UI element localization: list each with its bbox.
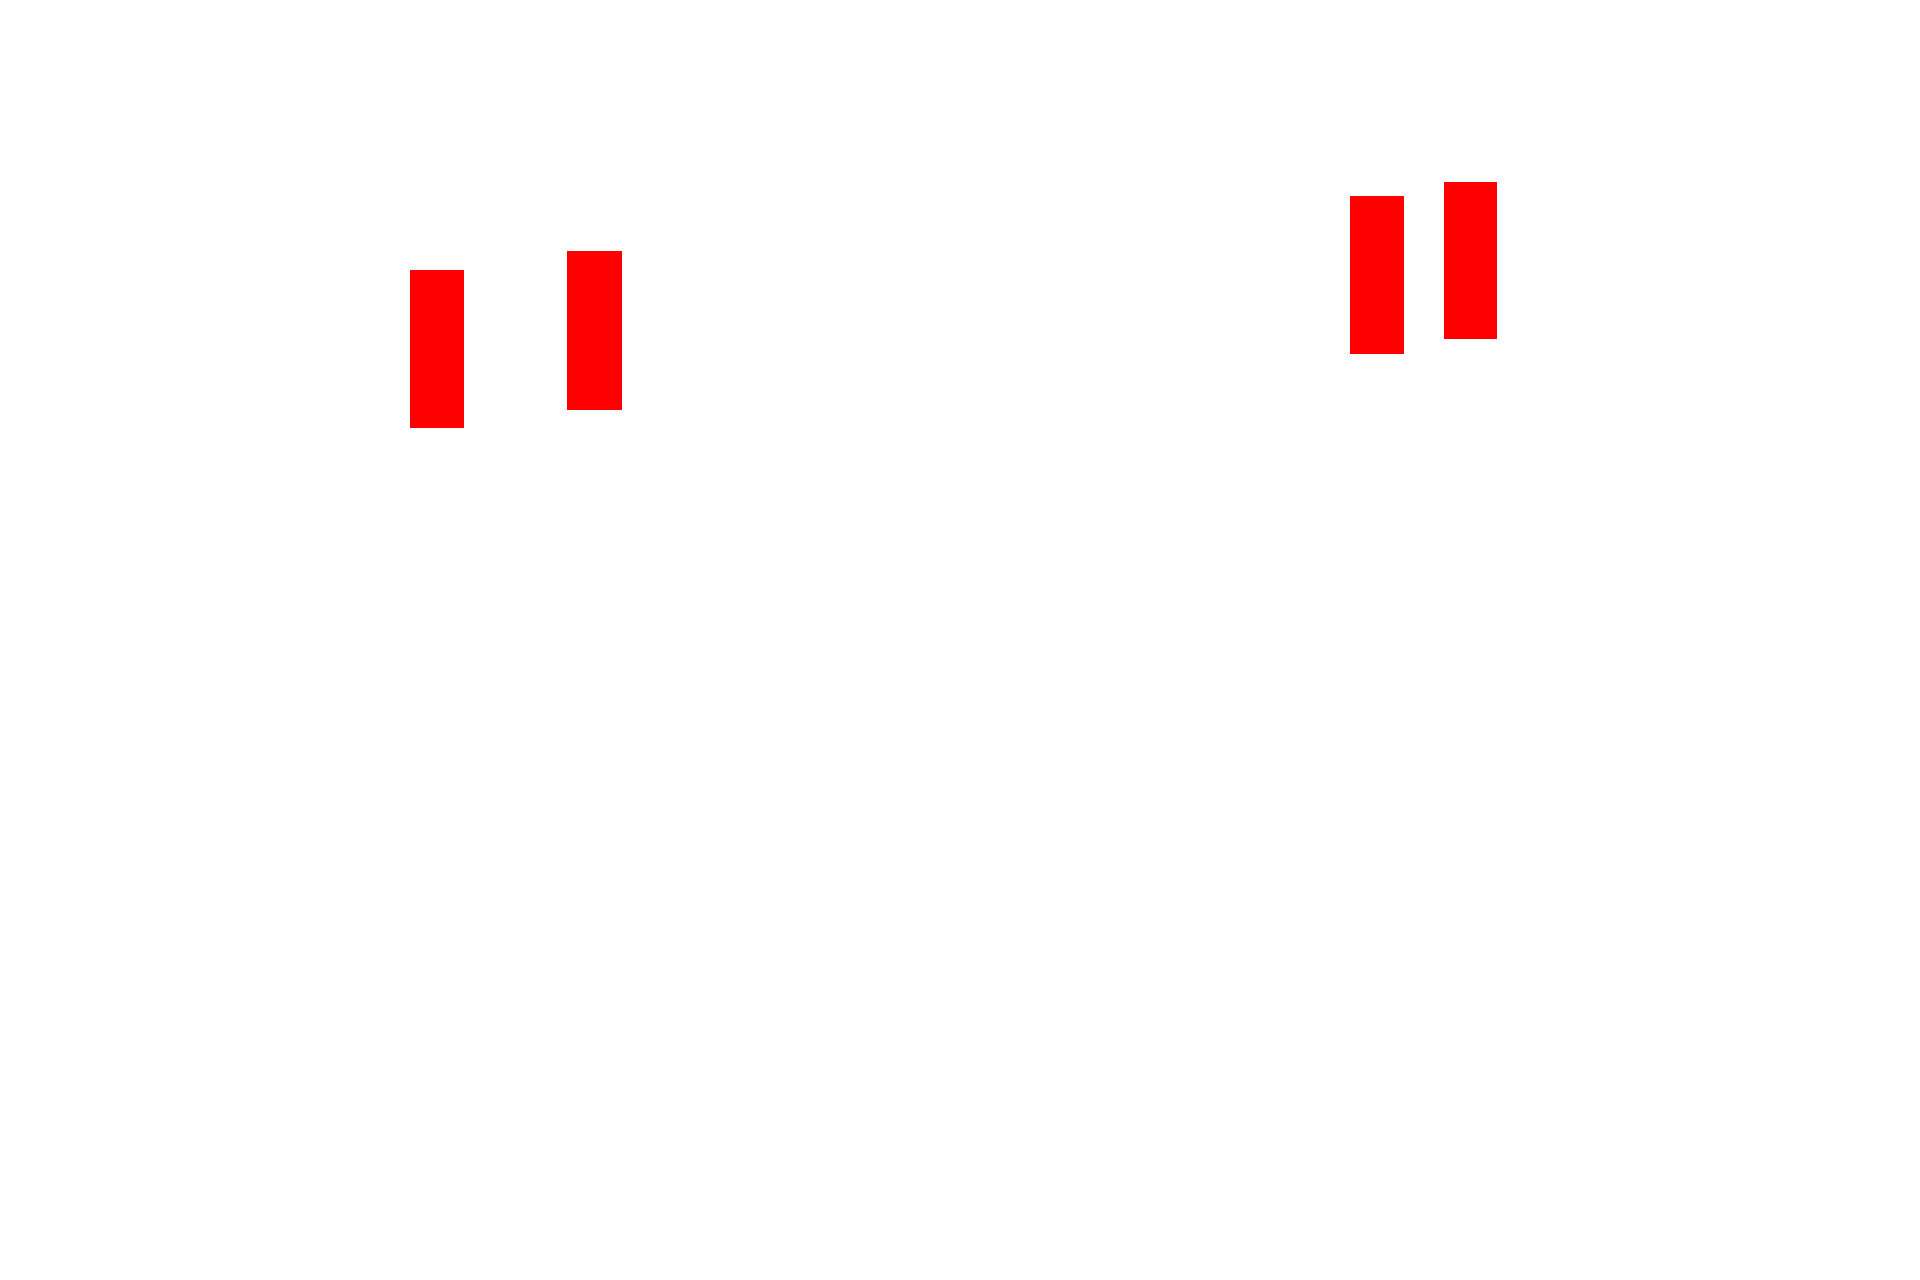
red candle bar 1 [410, 270, 464, 428]
red candle bar 4 [1444, 182, 1497, 339]
red candle bar 3 [1350, 196, 1404, 354]
red candle bar 2 [567, 251, 622, 410]
